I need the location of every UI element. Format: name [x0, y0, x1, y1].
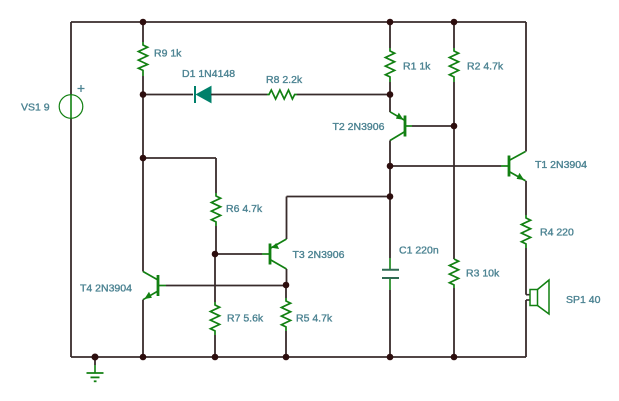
- node T2 collector / T1 base: [387, 163, 394, 170]
- resistor R4: [521, 215, 530, 248]
- node T3 emitter / C1 column: [387, 193, 394, 200]
- wire bottom rail: [71, 356, 526, 358]
- wire R9 top lead: [142, 22, 144, 42]
- node T2 base / R2: [451, 123, 458, 130]
- svg-text:VS1 9: VS1 9: [21, 102, 50, 114]
- wire R3 bottom to bottom rail: [453, 288, 455, 357]
- wire T3 collector vertical: [286, 269, 288, 285]
- svg-text:R9 1k: R9 1k: [154, 48, 182, 60]
- node T4 base / T3 collector / R5: [283, 282, 290, 289]
- node diode / R9 bottom: [140, 91, 147, 98]
- wire R7 bottom to bottom rail: [214, 335, 216, 357]
- wire R7 top lead: [214, 254, 216, 302]
- wire R2 top lead: [453, 22, 455, 48]
- wire R8 to R1-bottom node: [297, 94, 390, 96]
- svg-text:R6 4.7k: R6 4.7k: [226, 203, 263, 215]
- wire C1 column upper: [389, 166, 391, 258]
- transistor T2: [390, 112, 412, 141]
- transistor T4: [143, 272, 166, 300]
- wire T4 emitter to bottom rail: [142, 300, 144, 357]
- wire T4 base to R5 node: [166, 285, 286, 287]
- resistor R6: [211, 193, 220, 226]
- svg-text:R5 4.7k: R5 4.7k: [296, 313, 333, 325]
- wire R6 top lead: [215, 158, 217, 193]
- svg-text:R3 10k: R3 10k: [466, 268, 500, 280]
- wire left rail upper (top rail to VS1): [70, 22, 72, 95]
- wire T2 emitter vertical: [389, 95, 391, 113]
- wire R4 bottom to speaker: [525, 248, 527, 295]
- speaker SP1: [526, 280, 549, 314]
- wire T3 emitter vertical: [286, 197, 288, 240]
- svg-text:T3 2N3906: T3 2N3906: [293, 249, 345, 261]
- capacitor C1: [382, 258, 399, 290]
- node ground: [92, 354, 99, 361]
- wire T3 base node to T3: [215, 253, 262, 255]
- wire R5 top lead: [285, 285, 287, 298]
- wire R1 bottom to node: [389, 82, 391, 95]
- resistor R3: [449, 259, 458, 288]
- resistor R1: [385, 48, 394, 82]
- wire T2 collector vertical: [389, 141, 391, 167]
- resistor R2: [449, 48, 458, 82]
- wire D1 to R8: [211, 94, 267, 96]
- resistor R8: [267, 90, 297, 99]
- node top rail / R9: [140, 19, 147, 26]
- resistor R9: [138, 42, 147, 76]
- svg-text:T4 2N3904: T4 2N3904: [80, 283, 132, 295]
- wire T2 base to R2 column: [412, 125, 454, 127]
- node R8 / R1 / T2 emitter: [387, 91, 394, 98]
- node top rail / R2: [451, 19, 458, 26]
- wire left rail lower (VS1 to bottom rail): [70, 118, 72, 357]
- svg-text:SP1 40: SP1 40: [566, 294, 601, 306]
- ground: [87, 357, 104, 381]
- resistor R7: [210, 302, 219, 335]
- wire R9 bottom to diode node: [142, 76, 144, 95]
- wire R1 top lead: [389, 22, 391, 48]
- voltage source VS1: [59, 85, 84, 118]
- wire T2 collector node to T1 base: [390, 165, 501, 167]
- node bottom rail / C1: [387, 354, 394, 361]
- node bottom rail / R5: [283, 354, 290, 361]
- svg-text:R7 5.6k: R7 5.6k: [227, 313, 264, 325]
- node T3 base / R6 / R7: [212, 251, 219, 258]
- node top rail / R1: [387, 19, 394, 26]
- svg-text:R8 2.2k: R8 2.2k: [266, 74, 303, 86]
- svg-text:T1 2N3904: T1 2N3904: [535, 159, 587, 171]
- node bottom rail / R7: [212, 354, 219, 361]
- node R6 branch: [140, 155, 147, 162]
- wire C1 bottom to bottom rail: [389, 290, 391, 357]
- wire R2 bottom to T2 base node: [453, 82, 455, 126]
- wire right rail (top rail down to T1 collector): [525, 22, 527, 152]
- diode D1: [195, 86, 211, 103]
- wire diode node down to R6 branch node: [142, 95, 144, 159]
- svg-text:R2 4.7k: R2 4.7k: [467, 61, 504, 73]
- wire R2/R3 column crossing: [453, 126, 455, 259]
- svg-text:C1 220n: C1 220n: [399, 245, 439, 257]
- transistor T3: [262, 239, 287, 269]
- wire diode node to D1: [143, 94, 193, 96]
- svg-text:R1 1k: R1 1k: [403, 61, 431, 73]
- wire top rail: [71, 21, 526, 23]
- node bottom rail / T4 emitter: [140, 354, 147, 361]
- wire speaker to bottom rail: [525, 300, 527, 357]
- svg-text:T2 2N3906: T2 2N3906: [333, 121, 385, 133]
- resistor R5: [281, 298, 290, 331]
- wire R6 bottom to T3 base node: [215, 226, 217, 254]
- wire R6 branch horizontal: [143, 157, 216, 159]
- transistor T1: [501, 152, 526, 181]
- wire T3 emitter to C1 column: [287, 196, 391, 198]
- node bottom rail / R3: [451, 354, 458, 361]
- svg-text:R4 220: R4 220: [540, 227, 574, 239]
- wire R5 bottom to bottom rail: [285, 331, 287, 357]
- svg-text:D1 1N4148: D1 1N4148: [182, 68, 235, 80]
- wire T1 emitter to R4: [525, 181, 527, 215]
- wire T4 collector vertical (from R6 branch node down): [142, 158, 144, 272]
